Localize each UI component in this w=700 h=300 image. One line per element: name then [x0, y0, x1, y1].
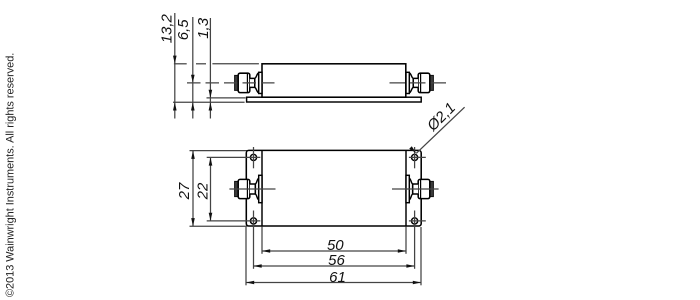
svg-text:©2013 Wainwright Instruments.: ©2013 Wainwright Instruments. All rights… — [5, 53, 17, 297]
plan view right connector — [406, 175, 433, 202]
mounting hole top-right — [412, 154, 418, 160]
side view left centerline — [187, 82, 277, 84]
extension lines for 50 — [261, 227, 263, 254]
side view body — [262, 64, 406, 97]
side view flange plate — [247, 97, 422, 102]
svg-text:1,3: 1,3 — [195, 17, 212, 39]
leader line for hole diameter — [416, 107, 464, 153]
plan left centerline — [229, 188, 275, 190]
extension lines for 56 (through bottom holes) — [253, 211, 255, 269]
extension lines for 61 — [245, 227, 247, 285]
dimension line 22 — [210, 157, 212, 221]
dimension line 1,3 — [209, 18, 211, 119]
svg-text:61: 61 — [329, 269, 346, 286]
mounting hole top-left — [250, 154, 256, 160]
dimension line 13,2 — [174, 13, 176, 119]
extension line, flange top (1,3) — [207, 97, 246, 99]
side view left connector — [235, 72, 262, 93]
mounting hole bottom-left — [250, 218, 256, 224]
extension line, baseline flange bottom — [173, 101, 245, 103]
svg-text:6,5: 6,5 — [175, 19, 192, 41]
dimension line 50 — [262, 250, 406, 252]
plan view plate — [246, 150, 421, 226]
dimension line 61 — [246, 282, 421, 284]
side view right centerline — [390, 82, 448, 84]
svg-text:56: 56 — [328, 252, 345, 269]
plan view body edge left — [261, 151, 263, 226]
extension line, dashed, top of body (13,2) — [174, 63, 187, 65]
dimension line 56 — [254, 265, 415, 267]
svg-text:22: 22 — [195, 182, 212, 200]
svg-text:13,2: 13,2 — [159, 13, 176, 43]
dimension line 6,5 — [192, 17, 194, 119]
plan right centerline — [392, 188, 439, 190]
plan view body edge right — [405, 151, 407, 226]
extension lines for 22 / hole crosshairs horizontal left — [207, 156, 261, 158]
dimension line 27 — [192, 151, 194, 227]
side view right connector — [406, 72, 433, 93]
plan view left connector — [235, 175, 262, 202]
mounting hole bottom-right — [412, 218, 418, 224]
svg-text:27: 27 — [176, 182, 193, 200]
extension lines for 27 — [190, 150, 248, 152]
